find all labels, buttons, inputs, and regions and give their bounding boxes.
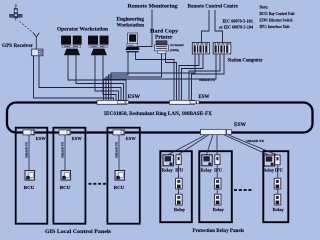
svg-text:ESW: ESW [126,136,136,141]
svg-text:IFU: IFU [275,168,283,173]
svg-text:IEC61850, Redundant Ring LAN,: IEC61850, Redundant Ring LAN, 100BASE-FX [104,112,213,117]
BCU 2 [60,171,71,190]
svg-text:10BASE-TX: 10BASE-TX [61,141,65,158]
operator workstation 2 [88,35,109,55]
wire GPS-A [34,56,114,100]
relay panel 3: module 1 [274,178,281,189]
svg-text:IFU: IFU [175,168,183,173]
svg-text:IFU: Interface Unit: IFU: Interface Unit [260,25,291,29]
wire SC2-a to ESW1 [104,54,217,100]
svg-text:Relay: Relay [273,207,284,212]
GIS panel 2 [53,128,85,224]
ring IEC61850 redundant ring LAN [7,103,313,133]
relay panel 1: IFU [175,155,183,173]
relay panel 3: IFU [275,155,283,173]
wire SC1-a to ESW1 [111,54,195,100]
GIS panel3 ESW-BCU link [118,135,120,171]
relay panel 2: chain line [216,165,218,195]
wire printer to ESW1 [106,54,162,101]
engineering workstation [125,33,139,52]
relay panel 1: relay unit [162,155,174,173]
wire SC1-b to ESW2 [179,54,199,100]
svg-text:ESW: ESW [199,95,210,100]
svg-text:On demand: On demand [170,43,183,47]
svg-text:ESW: ESW [234,123,246,128]
svg-text:ESW: ESW [36,136,46,141]
wire EngWS to ESW1 [109,52,129,100]
svg-text:or IEC 60870-5-104: or IEC 60870-5-104 [219,25,253,29]
station computer 2 [213,43,231,54]
svg-text:BCU: Bay Control Unit: BCU: Bay Control Unit [260,12,296,16]
svg-text:GIS Local Control Panels: GIS Local Control Panels [45,230,111,235]
svg-text:printing: printing [170,48,179,52]
relay panel 3: chain line [277,165,279,194]
svg-text:Remote Control Centre: Remote Control Centre [188,4,239,10]
protection relay panel 2 [199,151,232,222]
svg-text:BCU: BCU [114,185,125,190]
relay panel 2: module 1 [214,178,221,189]
relay panel 2: relay unit [201,155,213,173]
svg-text:Remote Monitoring: Remote Monitoring [128,4,178,10]
GIS panel 3 [107,128,139,224]
svg-text:10BASE-TX: 10BASE-TX [115,141,119,158]
svg-text:Protection Relay Panels: Protection Relay Panels [193,229,245,234]
dashes between GIS panel 2 and 3 [89,183,106,185]
station computer 1 [192,43,209,54]
svg-text:Printer: Printer [155,35,173,41]
svg-text:Relay: Relay [162,168,173,173]
GIS ESW box 1 [23,130,46,141]
relay panel 1: chain line [177,165,179,195]
svg-text:BCU: BCU [60,185,71,190]
svg-text:10BASE-TX: 10BASE-TX [199,78,216,82]
printer icon [155,41,169,54]
relay panel 1: module 2 [174,194,185,212]
GIS ESW box 2 [59,130,82,141]
relay panel 3: relay unit [263,155,275,173]
wire WS1-L [68,55,126,100]
GIS ESW box 3 [113,130,136,141]
wires fan from ESW3 to relay panels [169,135,278,155]
svg-text:Engineering: Engineering [117,18,145,23]
svg-text:BCU: BCU [24,185,35,190]
wire WS2-R [103,55,116,100]
wire EngWS to ESW2 [136,52,175,100]
svg-text:IEC 60870-5-101: IEC 60870-5-101 [223,19,254,23]
svg-text:ESW: ESW [128,95,141,100]
svg-text:Relay: Relay [263,168,274,173]
BCU 3 [114,171,125,190]
svg-text:IFU: IFU [214,168,222,173]
ethernet switch ESW3 on ring bottom edge [201,129,232,134]
wire SC2-b to ESW2 [189,54,220,100]
svg-text:Note:: Note: [260,5,269,9]
satellite icon [10,5,23,21]
wire remote control right [215,10,223,42]
GPS antenna [33,33,39,49]
wire SC1-c to ESW2 [182,54,204,100]
GIS panel 1 [16,128,48,224]
wire remote control left [202,10,210,42]
svg-text:Relay: Relay [201,168,212,173]
ethernet switch ESW2 on ring top edge [170,100,200,104]
protection relay panel 3 [263,151,288,222]
wire WS1-R [76,55,124,100]
svg-text:Relay: Relay [174,207,185,212]
svg-text:Operator Workstation: Operator Workstation [57,27,108,33]
relay panel 2: IFU [214,155,222,173]
wire printer to ESW2 [166,54,177,101]
operator workstation 1 [61,35,82,55]
dashed GPS signal line [20,22,35,34]
protection relay panel 1 [160,151,192,222]
BCU 1 [24,171,35,190]
wire WS2-L [95,55,119,100]
GPS receiver box [32,49,43,56]
svg-text:Station Computer: Station Computer [228,59,264,64]
dashes between relay panel 2 and 3 [234,189,251,191]
svg-text:ESW: Ethernet Switch: ESW: Ethernet Switch [260,19,294,23]
wire GPS-B [39,56,121,100]
svg-text:ESW: ESW [72,136,82,141]
svg-text:10BASE-TX: 10BASE-TX [25,141,29,158]
relay panel 2: module 2 [213,194,224,212]
svg-text:GPS Receiver: GPS Receiver [2,43,34,49]
wire remote monitoring [139,10,153,47]
GIS panel2 ESW-BCU link [64,135,66,171]
relay panel 1: module 1 [176,178,183,189]
svg-text:10BASE-TX: 10BASE-TX [246,139,265,143]
GIS panel1 ESW-BCU link [28,135,30,171]
wire SC2-c to ESW2 [192,54,225,100]
svg-text:Relay: Relay [213,207,224,212]
svg-text:Workstation: Workstation [117,24,145,29]
ethernet switch ESW1 on ring top edge [97,100,129,104]
relay panel 3: module 2 [273,194,284,212]
